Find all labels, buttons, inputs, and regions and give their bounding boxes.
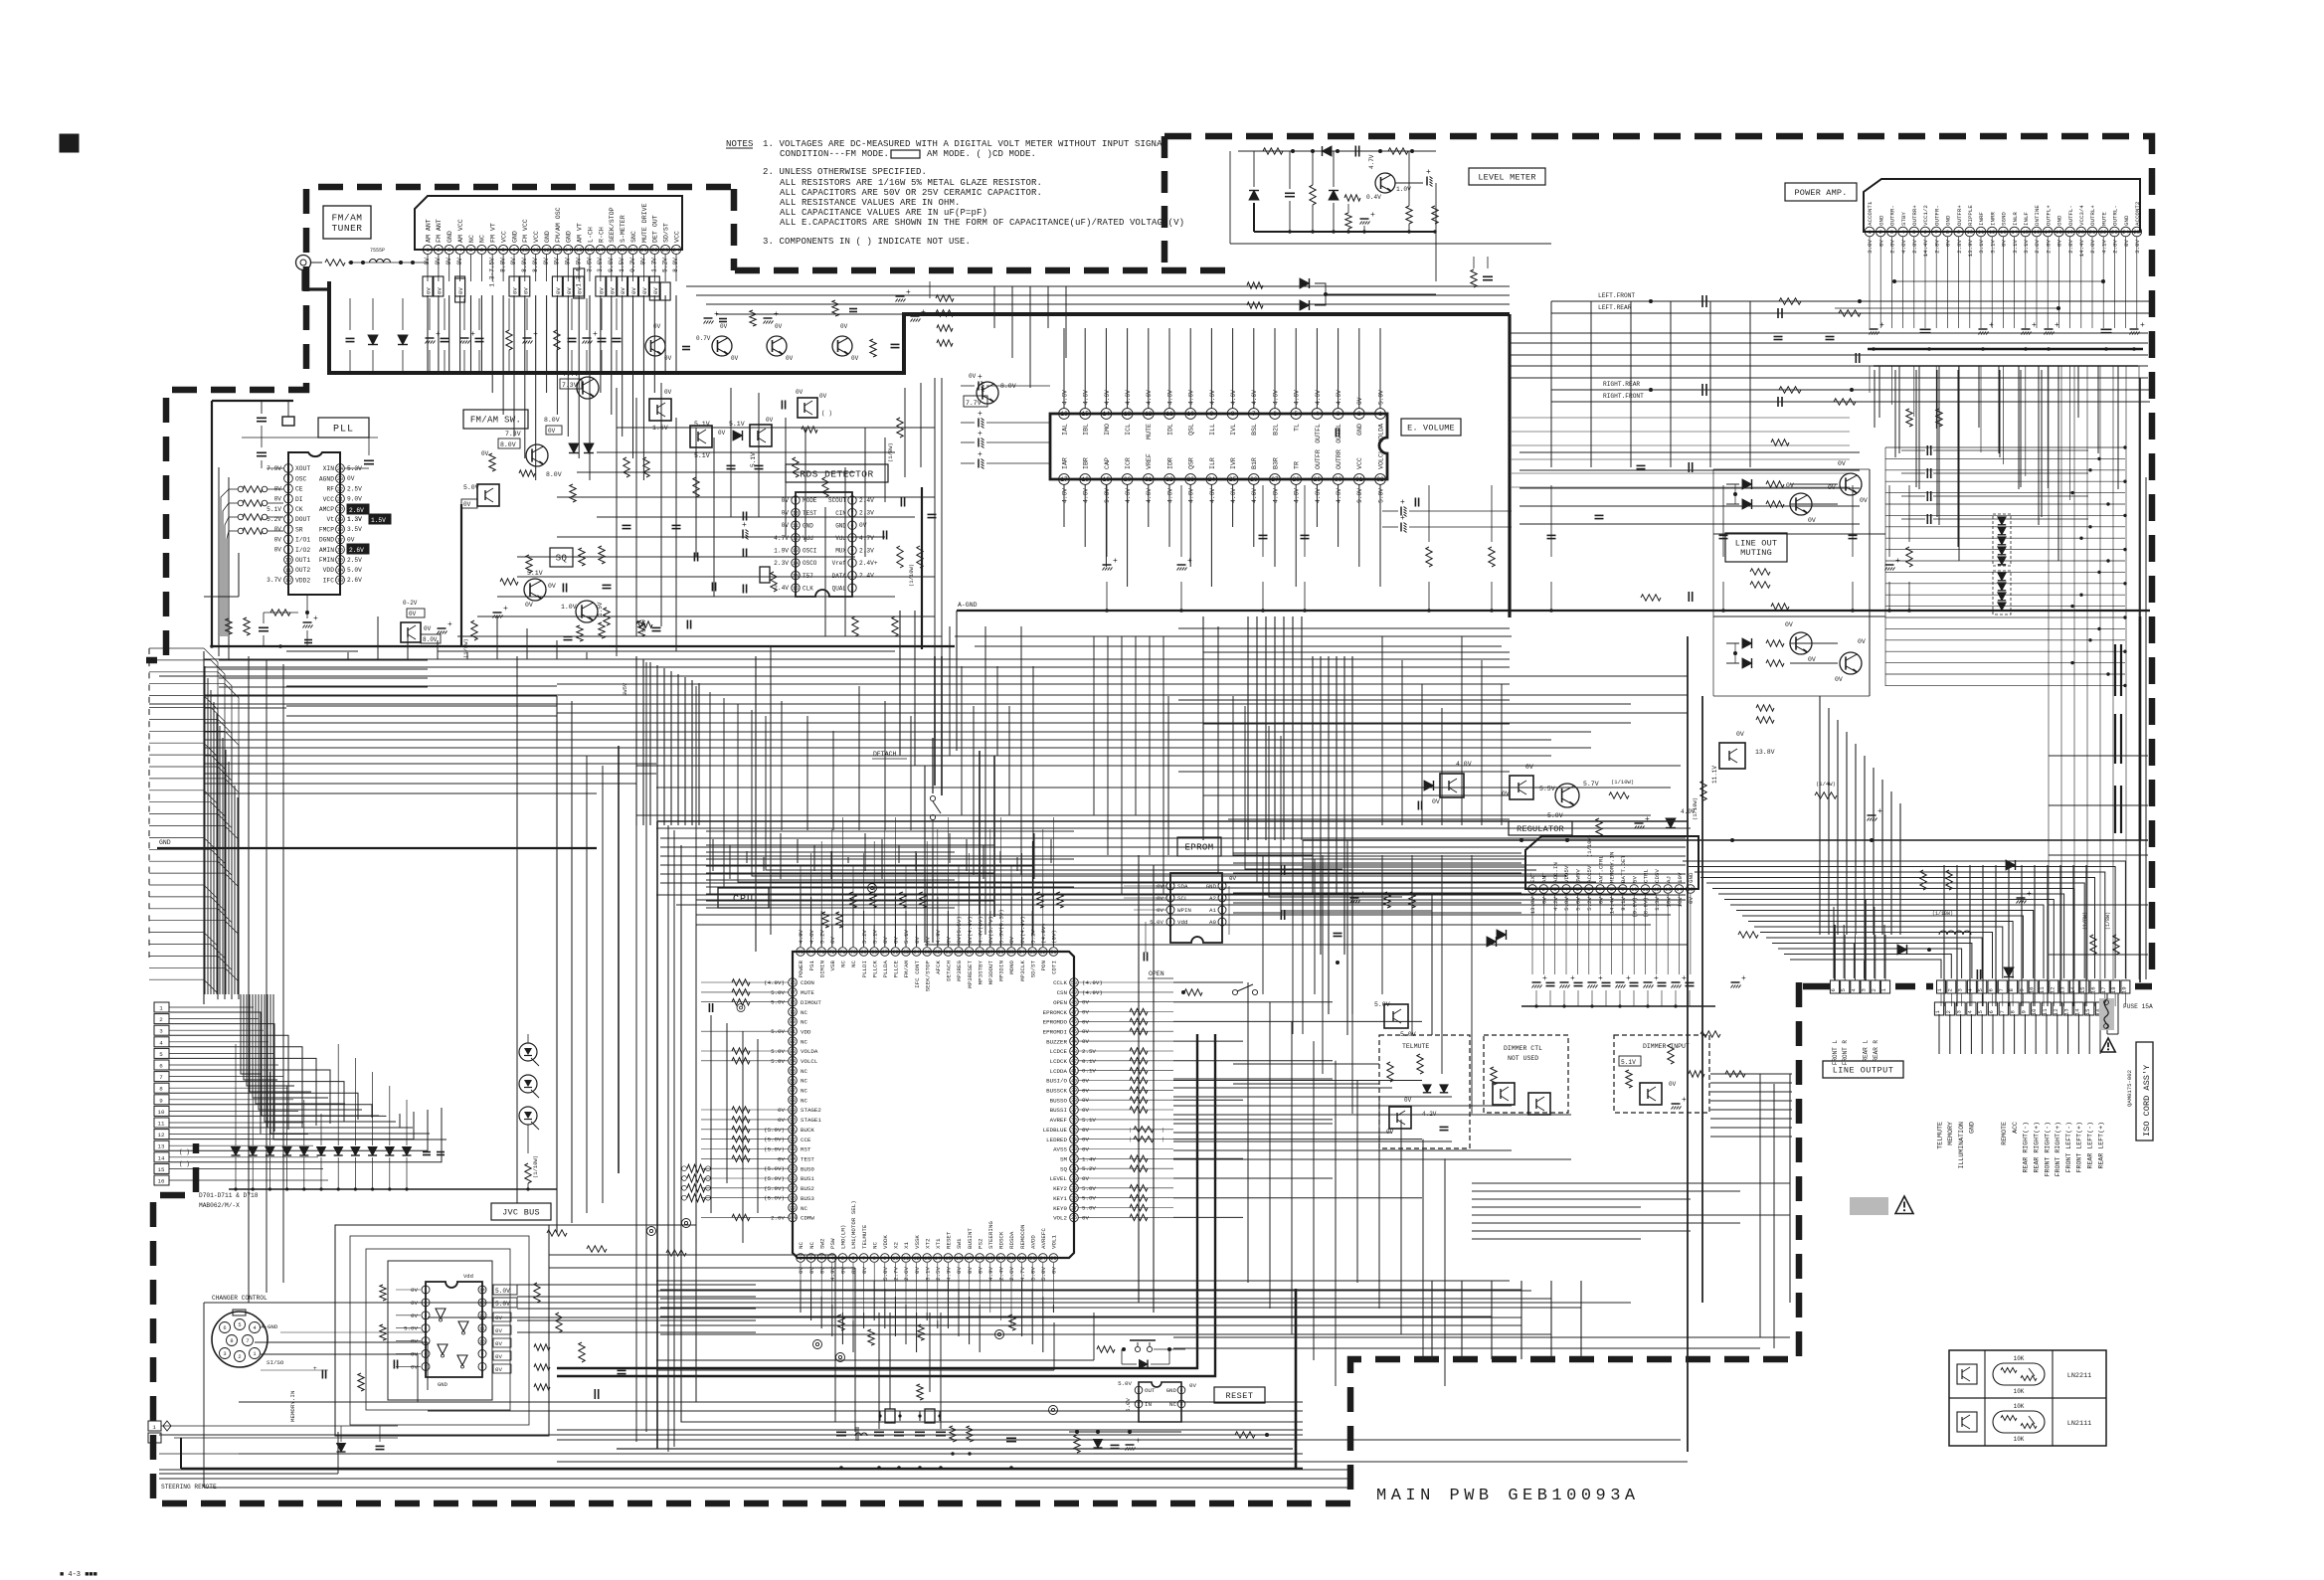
svg-text:0V: 0V xyxy=(782,522,790,529)
svg-text:7.3V: 7.3V xyxy=(505,431,521,438)
svg-text:+: + xyxy=(447,620,452,629)
svg-text:0V: 0V xyxy=(495,1340,502,1347)
svg-text:58: 58 xyxy=(977,950,983,956)
svg-text:2.5V: 2.5V xyxy=(1082,1048,1096,1055)
svg-text:6: 6 xyxy=(1169,896,1172,902)
svg-text:RDSCK: RDSCK xyxy=(998,1231,1005,1249)
svg-text:MONO: MONO xyxy=(1008,960,1015,973)
svg-text:0V: 0V xyxy=(1082,1018,1089,1025)
svg-text:NC: NC xyxy=(798,1242,804,1249)
svg-text:12: 12 xyxy=(914,1256,920,1262)
svg-text:0V: 0V xyxy=(1502,790,1510,797)
svg-text:( ): ( ) xyxy=(179,1160,190,1167)
svg-text:(4.9V): (4.9V) xyxy=(1082,989,1103,996)
svg-text:FUSE 15A: FUSE 15A xyxy=(2123,1003,2153,1010)
svg-text:3: 3 xyxy=(223,1351,226,1357)
svg-text:+: + xyxy=(1400,514,1405,523)
svg-text:2: 2 xyxy=(238,1354,241,1360)
svg-text:OSCI: OSCI xyxy=(803,548,816,555)
svg-text:0V: 0V xyxy=(598,287,605,294)
svg-text:RDS DETECTOR: RDS DETECTOR xyxy=(800,468,873,479)
svg-text:1.5V: 1.5V xyxy=(371,517,386,524)
svg-text:18: 18 xyxy=(2110,986,2117,993)
svg-text:8.0V: 8.0V xyxy=(500,441,516,448)
svg-text:+: + xyxy=(906,288,911,297)
svg-text:NC: NC xyxy=(871,1242,878,1249)
svg-text:2.5V: 2.5V xyxy=(935,1266,942,1280)
svg-text:4: 4 xyxy=(1316,411,1320,418)
svg-text:MP3RESET: MP3RESET xyxy=(967,960,974,987)
wire: middle long verticals xyxy=(249,611,1218,1303)
page corner mark xyxy=(60,1571,97,1579)
svg-text:0V: 0V xyxy=(819,393,827,400)
svg-text:0V: 0V xyxy=(720,323,728,330)
svg-text:+: + xyxy=(978,450,983,459)
RDS crystal and caps xyxy=(742,498,937,637)
svg-text:0V: 0V xyxy=(1082,1038,1089,1045)
PLL area extra wires xyxy=(204,467,557,716)
svg-text:20: 20 xyxy=(2077,229,2084,236)
svg-text:(0V): (0V) xyxy=(1051,930,1058,944)
warning highlight marker xyxy=(1850,1196,1913,1215)
svg-text:DI: DI xyxy=(295,496,303,503)
svg-text:0.1V: 0.1V xyxy=(1082,1058,1096,1065)
IC power amplifier connector xyxy=(1864,179,2142,257)
svg-text:3: 3 xyxy=(820,1256,823,1262)
svg-text:NC: NC xyxy=(808,1242,815,1249)
OPEN switch xyxy=(1148,970,1258,995)
svg-text:63: 63 xyxy=(924,950,930,956)
wire: vertical bundles near detach xyxy=(957,611,1168,1313)
CPU top pin wires xyxy=(801,817,1063,947)
svg-text:|: | xyxy=(1129,1138,1132,1143)
svg-text:LN2111: LN2111 xyxy=(2067,1420,2091,1428)
svg-text:OPEN: OPEN xyxy=(1053,999,1067,1006)
svg-text:8: 8 xyxy=(1946,229,1949,236)
svg-text:MUTE: MUTE xyxy=(2100,212,2107,226)
svg-text:5.8V: 5.8V xyxy=(1563,896,1570,910)
svg-text:IDR: IDR xyxy=(1166,457,1173,469)
svg-text:FM/AM SW.: FM/AM SW. xyxy=(470,416,521,426)
svg-text:NC: NC xyxy=(850,960,857,966)
svg-text:3.1V: 3.1V xyxy=(2023,239,2030,253)
svg-text:SI/SO: SI/SO xyxy=(267,1359,284,1366)
svg-text:(1/8W): (1/8W) xyxy=(2082,912,2088,930)
svg-text:4.6V: 4.6V xyxy=(1900,239,1907,253)
svg-text:0V: 0V xyxy=(664,389,672,396)
svg-text:AJ: AJ xyxy=(1665,876,1672,883)
svg-text:7.7V: 7.7V xyxy=(563,371,579,378)
svg-text:ALL RESISTORS ARE 1/16W 5% MET: ALL RESISTORS ARE 1/16W 5% METAL GLAZE R… xyxy=(780,178,1042,188)
svg-text:VDDK: VDDK xyxy=(882,1235,889,1249)
svg-text:MUTING: MUTING xyxy=(1740,548,1772,558)
svg-text:10K: 10K xyxy=(2014,1388,2025,1395)
wire: power amp braid verticals xyxy=(1520,370,2042,547)
svg-text:100: 100 xyxy=(788,1215,797,1221)
svg-text:4.6V: 4.6V xyxy=(1083,390,1090,405)
svg-text:15: 15 xyxy=(337,558,343,564)
svg-text:13: 13 xyxy=(1124,411,1132,418)
svg-text:CDON: CDON xyxy=(801,979,814,986)
junction stub column feeding line output xyxy=(1885,445,2127,687)
wire: harness from CPU right to regulator and connectors xyxy=(1173,1074,1790,1303)
connector CN 16-pin left xyxy=(154,1002,328,1209)
svg-text:NC: NC xyxy=(801,1038,807,1045)
svg-text:(1/10W): (1/10W) xyxy=(1586,834,1593,857)
svg-text:AM MODE. ( )CD MODE.: AM MODE. ( )CD MODE. xyxy=(927,149,1036,159)
svg-text:BUSINT: BUSINT xyxy=(967,1228,974,1249)
svg-text:BSL: BSL xyxy=(1251,424,1258,436)
svg-text:6: 6 xyxy=(480,247,483,254)
svg-text:0V: 0V xyxy=(1157,907,1163,914)
svg-text:IAL: IAL xyxy=(1061,424,1068,436)
svg-text:10: 10 xyxy=(2031,1008,2038,1015)
svg-text:VDD: VDD xyxy=(323,567,335,574)
svg-text:OSC: OSC xyxy=(295,475,307,482)
svg-text:17: 17 xyxy=(337,537,343,543)
svg-text:3: 3 xyxy=(447,247,450,254)
wire: long mid horizontals xyxy=(159,659,1688,740)
wire: detach column pair xyxy=(879,766,1688,1429)
svg-text:SCOUT: SCOUT xyxy=(828,497,846,504)
wire: left vertical spine set xyxy=(557,656,674,1452)
svg-text:4.9V: 4.9V xyxy=(798,930,804,944)
svg-text:NC: NC xyxy=(801,1009,807,1016)
svg-text:5: 5 xyxy=(1169,884,1172,890)
svg-text:0V(4.4V): 0V(4.4V) xyxy=(967,916,974,944)
svg-text:+: + xyxy=(1989,321,1994,330)
svg-text:0V: 0V xyxy=(766,417,774,424)
svg-text:14: 14 xyxy=(337,568,343,574)
svg-text:0V: 0V xyxy=(566,287,573,294)
svg-text:12: 12 xyxy=(479,1314,485,1319)
svg-text:LMO(LM): LMO(LM) xyxy=(840,1225,847,1249)
svg-text:11: 11 xyxy=(158,1121,165,1128)
svg-text:RESET: RESET xyxy=(946,1231,953,1249)
svg-text:2: 2 xyxy=(1221,908,1224,914)
svg-text:10: 10 xyxy=(1187,411,1195,418)
svg-text:3.5V: 3.5V xyxy=(347,526,362,533)
wire: power amp lower drops xyxy=(1879,366,2148,982)
svg-text:8: 8 xyxy=(2010,1010,2017,1013)
svg-text:4.6V: 4.6V xyxy=(1272,390,1279,405)
svg-text:0-2V: 0-2V xyxy=(403,600,418,607)
svg-text:T57: T57 xyxy=(803,573,813,580)
svg-text:2.0V: 2.0V xyxy=(771,1214,785,1221)
svg-text:26: 26 xyxy=(1071,1215,1077,1221)
regulator decoupling bank xyxy=(1487,894,1758,1064)
svg-text:16: 16 xyxy=(2034,229,2041,236)
svg-text:+: + xyxy=(978,410,983,419)
svg-text:5.7V: 5.7V xyxy=(1583,781,1599,788)
svg-text:4.6V: 4.6V xyxy=(1146,488,1153,503)
svg-text:PSW: PSW xyxy=(829,1238,836,1249)
svg-text:0V: 0V xyxy=(424,625,432,632)
wire stubs under tuner pins xyxy=(428,255,676,281)
IC CPU microcontroller QFP100 xyxy=(764,909,1103,1281)
svg-text:2.4V: 2.4V xyxy=(859,497,874,504)
svg-text:1: 1 xyxy=(159,1005,163,1012)
svg-text:STAGE1: STAGE1 xyxy=(801,1117,821,1124)
svg-text:LEDRED: LEDRED xyxy=(1046,1137,1067,1143)
svg-text:4.6V: 4.6V xyxy=(1209,488,1216,503)
svg-text:+: + xyxy=(978,373,983,382)
svg-text:OUTFL-: OUTFL- xyxy=(2067,205,2074,226)
svg-text:REMOCON: REMOCON xyxy=(1019,1224,1026,1249)
wire: bottom distribution xyxy=(204,1281,1631,1454)
svg-text:FRONT LEFT(-): FRONT LEFT(-) xyxy=(2065,1122,2072,1172)
svg-text:3: 3 xyxy=(286,486,289,492)
svg-text:+: + xyxy=(1400,498,1405,507)
svg-text:9: 9 xyxy=(883,1256,886,1262)
svg-text:B2L: B2L xyxy=(1272,424,1279,436)
svg-text:12: 12 xyxy=(285,578,291,584)
svg-text:32: 32 xyxy=(1376,476,1384,483)
svg-text:0V: 0V xyxy=(1404,1097,1412,1104)
wire: dashed boundary around notes xyxy=(734,136,1233,270)
svg-text:5.0V: 5.0V xyxy=(1082,1185,1096,1192)
svg-text:8: 8 xyxy=(230,1338,233,1344)
svg-text:0V: 0V xyxy=(274,536,282,543)
svg-text:13: 13 xyxy=(793,548,799,554)
svg-text:22: 22 xyxy=(1165,476,1173,483)
svg-text:71: 71 xyxy=(839,950,845,956)
svg-text:13.9V: 13.9V xyxy=(1967,239,1974,257)
svg-text:83: 83 xyxy=(790,1049,796,1055)
svg-text:98: 98 xyxy=(790,1196,796,1202)
svg-text:10: 10 xyxy=(1631,887,1637,893)
svg-text:0V: 0V xyxy=(1008,937,1015,944)
svg-text:0V: 0V xyxy=(775,323,783,330)
boxed voltage labels under tuner pins xyxy=(423,268,670,302)
svg-text:(4.9V): (4.9V) xyxy=(764,979,785,986)
svg-text:53: 53 xyxy=(1029,950,1035,956)
svg-text:10: 10 xyxy=(158,1109,165,1116)
svg-text:5.1V: 5.1V xyxy=(1621,1059,1636,1066)
svg-text:SGND: SGND xyxy=(2001,212,2008,226)
svg-text:5.1V: 5.1V xyxy=(871,930,878,944)
svg-text:OUT: OUT xyxy=(1145,1387,1156,1394)
svg-text:20: 20 xyxy=(1124,476,1132,483)
svg-text:8.0V: 8.0V xyxy=(546,471,562,478)
svg-text:LEDBLUE: LEDBLUE xyxy=(1043,1127,1068,1134)
svg-text:DETACH: DETACH xyxy=(946,960,953,980)
svg-text:0V: 0V xyxy=(914,937,921,944)
svg-text:4.6V: 4.6V xyxy=(1125,488,1132,503)
svg-text:+: + xyxy=(1426,168,1431,177)
svg-text:NC: NC xyxy=(801,1019,807,1026)
svg-text:VOLCL: VOLCL xyxy=(1377,449,1384,469)
svg-text:2.5V: 2.5V xyxy=(347,557,362,564)
svg-text:23: 23 xyxy=(662,247,669,254)
svg-text:21: 21 xyxy=(1008,1256,1014,1262)
svg-text:13.8V: 13.8V xyxy=(1755,749,1775,756)
svg-text:2.8V: 2.8V xyxy=(1911,239,1918,253)
svg-text:XOUT: XOUT xyxy=(295,465,310,472)
svg-text:JVC BUS: JVC BUS xyxy=(502,1208,540,1218)
svg-text:62: 62 xyxy=(935,950,941,956)
svg-text:5.0V: 5.0V xyxy=(771,989,785,996)
svg-text:2: 2 xyxy=(152,1436,155,1443)
svg-text:+: + xyxy=(1741,974,1746,983)
svg-text:19: 19 xyxy=(337,517,343,523)
wire: central band horizontals xyxy=(204,636,1686,925)
svg-text:54: 54 xyxy=(1019,950,1025,956)
svg-text:86: 86 xyxy=(790,1078,796,1084)
svg-text:16: 16 xyxy=(1060,411,1068,418)
svg-text:NC: NC xyxy=(801,1097,807,1104)
power amp decoupling caps xyxy=(1856,237,2145,366)
svg-text:4.6V: 4.6V xyxy=(1104,390,1111,405)
svg-text:0V: 0V xyxy=(347,536,355,543)
registration mark xyxy=(60,134,79,152)
svg-text:10: 10 xyxy=(892,1256,898,1262)
label REGULATOR xyxy=(1509,821,1572,835)
svg-text:11: 11 xyxy=(285,568,291,574)
svg-text:14: 14 xyxy=(2069,986,2076,993)
wire: line output / ISO section dashed boundary xyxy=(153,982,2152,1503)
svg-text:CE: CE xyxy=(295,486,303,493)
svg-text:89: 89 xyxy=(790,1108,796,1114)
svg-text:AMCP: AMCP xyxy=(319,506,334,513)
svg-text:OUTRR+: OUTRR+ xyxy=(1911,205,1918,226)
E.volume left coupling caps xyxy=(961,373,1512,533)
svg-text:11: 11 xyxy=(2042,1008,2049,1015)
svg-text:4.6V: 4.6V xyxy=(1336,488,1342,503)
svg-text:TELMUTE: TELMUTE xyxy=(861,1224,868,1249)
svg-text:0V: 0V xyxy=(1082,1087,1089,1094)
svg-text:85: 85 xyxy=(790,1069,796,1075)
svg-text:MEMORY: MEMORY xyxy=(1947,1122,1954,1145)
svg-text:0V: 0V xyxy=(840,323,848,330)
left/right channel feed lines xyxy=(1551,292,2150,407)
svg-text:16: 16 xyxy=(587,247,594,254)
svg-text:0V: 0V xyxy=(481,450,489,457)
svg-text:2.6V: 2.6V xyxy=(349,547,364,554)
svg-text:+: + xyxy=(313,1365,317,1372)
svg-text:14: 14 xyxy=(479,1288,485,1294)
svg-text:18: 18 xyxy=(2056,229,2062,236)
svg-text:14: 14 xyxy=(1676,887,1682,893)
svg-text:1. VOLTAGES ARE DC-MEASURED W: 1. VOLTAGES ARE DC-MEASURED WITH A DIGIT… xyxy=(763,139,1167,149)
svg-text:0V: 0V xyxy=(411,1313,418,1319)
svg-text:2: 2 xyxy=(809,1256,812,1262)
svg-text:35: 35 xyxy=(1071,1128,1077,1134)
svg-text:6: 6 xyxy=(1923,229,1926,236)
svg-text:GND: GND xyxy=(1945,215,1952,226)
svg-text:LEFT.REAR: LEFT.REAR xyxy=(1598,304,1632,311)
svg-text:+: + xyxy=(1682,1096,1687,1105)
svg-text:A-GND: A-GND xyxy=(958,602,978,609)
svg-text:(1/10W): (1/10W) xyxy=(1611,779,1634,786)
svg-text:73: 73 xyxy=(818,950,824,956)
wire: line out muting inner leads xyxy=(1713,469,1885,696)
svg-text:3.0V: 3.0V xyxy=(2134,239,2141,253)
svg-text:12: 12 xyxy=(2049,986,2056,993)
svg-text:14: 14 xyxy=(565,247,572,254)
svg-text:+: + xyxy=(1895,557,1900,566)
svg-text:1: 1 xyxy=(799,1256,802,1262)
svg-text:I/O2: I/O2 xyxy=(295,547,310,554)
svg-text:0V: 0V xyxy=(778,1155,785,1162)
svg-text:90: 90 xyxy=(790,1118,796,1124)
svg-text:SQ: SQ xyxy=(1060,1165,1067,1172)
svg-text:0V: 0V xyxy=(782,497,790,504)
svg-text:QSL: QSL xyxy=(1188,424,1195,436)
svg-text:OUTFR-: OUTFR- xyxy=(1933,205,1940,226)
svg-text:0V: 0V xyxy=(956,1266,963,1273)
svg-text:7: 7 xyxy=(1935,229,1938,236)
svg-text:MAB062/M/-X: MAB062/M/-X xyxy=(199,1202,240,1209)
svg-text:NC: NC xyxy=(801,1088,807,1095)
svg-text:67: 67 xyxy=(882,950,888,956)
svg-text:STAGE2: STAGE2 xyxy=(801,1107,821,1114)
svg-text:81: 81 xyxy=(790,1029,796,1035)
svg-text:NC: NC xyxy=(479,235,486,243)
power input transistors and filters xyxy=(1303,616,2148,1038)
svg-text:+: + xyxy=(978,430,983,439)
svg-text:2: 2 xyxy=(1945,1010,1952,1013)
svg-text:0V: 0V xyxy=(652,287,659,294)
push switch reset xyxy=(1097,1340,1185,1369)
svg-text:VCC: VCC xyxy=(1356,457,1363,469)
svg-text:32: 32 xyxy=(1071,1156,1077,1162)
svg-text:(5.0V): (5.0V) xyxy=(764,1127,785,1134)
svg-text:97: 97 xyxy=(790,1186,796,1192)
svg-text:61: 61 xyxy=(945,950,951,956)
svg-text:DNTINE: DNTINE xyxy=(2034,205,2041,226)
svg-text:4.6V: 4.6V xyxy=(1146,390,1153,405)
svg-text:EPROM: EPROM xyxy=(1184,843,1213,853)
svg-text:19: 19 xyxy=(987,1256,993,1262)
svg-text:4: 4 xyxy=(425,1325,428,1331)
svg-text:28: 28 xyxy=(1071,1196,1077,1202)
svg-text:MUTE: MUTE xyxy=(801,989,814,996)
svg-text:FM ANT: FM ANT xyxy=(436,219,443,243)
svg-text:5.0V: 5.0V xyxy=(1377,488,1384,503)
svg-text:47: 47 xyxy=(1071,1009,1077,1015)
svg-text:20: 20 xyxy=(997,1256,1003,1262)
svg-text:5.2V: 5.2V xyxy=(1586,896,1593,910)
svg-text:8.0V: 8.0V xyxy=(423,636,438,643)
svg-text:AVDD: AVDD xyxy=(1029,1235,1036,1249)
svg-text:FRONT RIGHT(-): FRONT RIGHT(-) xyxy=(2044,1122,2051,1176)
svg-text:OSCO: OSCO xyxy=(803,560,817,567)
svg-text:13: 13 xyxy=(337,578,343,584)
svg-text:2.3V: 2.3V xyxy=(774,560,789,567)
svg-text:2: 2 xyxy=(425,1301,428,1307)
svg-text:13: 13 xyxy=(924,1256,930,1262)
svg-text:+: + xyxy=(1187,557,1192,566)
svg-text:0V: 0V xyxy=(609,287,616,294)
svg-text:11: 11 xyxy=(479,1325,485,1331)
wire: E.volume to power amp channel lines xyxy=(1510,301,2148,610)
svg-text:5.1V: 5.1V xyxy=(903,930,910,944)
svg-text:4.6V: 4.6V xyxy=(1315,390,1322,405)
svg-text:20: 20 xyxy=(629,247,636,254)
svg-text:STBY: STBY xyxy=(1900,212,1907,226)
svg-text:2.6V: 2.6V xyxy=(2034,239,2041,253)
svg-text:KEY1: KEY1 xyxy=(1053,1195,1067,1202)
svg-text:AFCK: AFCK xyxy=(935,960,942,973)
svg-text:RDSDA: RDSDA xyxy=(1008,1231,1015,1249)
wire: long horizontal buses upper middle xyxy=(149,684,1691,828)
svg-text:0V(5.5V): 0V(5.5V) xyxy=(956,916,963,944)
connector changer control DIN xyxy=(212,1295,428,1422)
svg-text:23: 23 xyxy=(337,476,343,482)
svg-text:40: 40 xyxy=(1071,1078,1077,1084)
svg-text:16: 16 xyxy=(956,1256,962,1262)
